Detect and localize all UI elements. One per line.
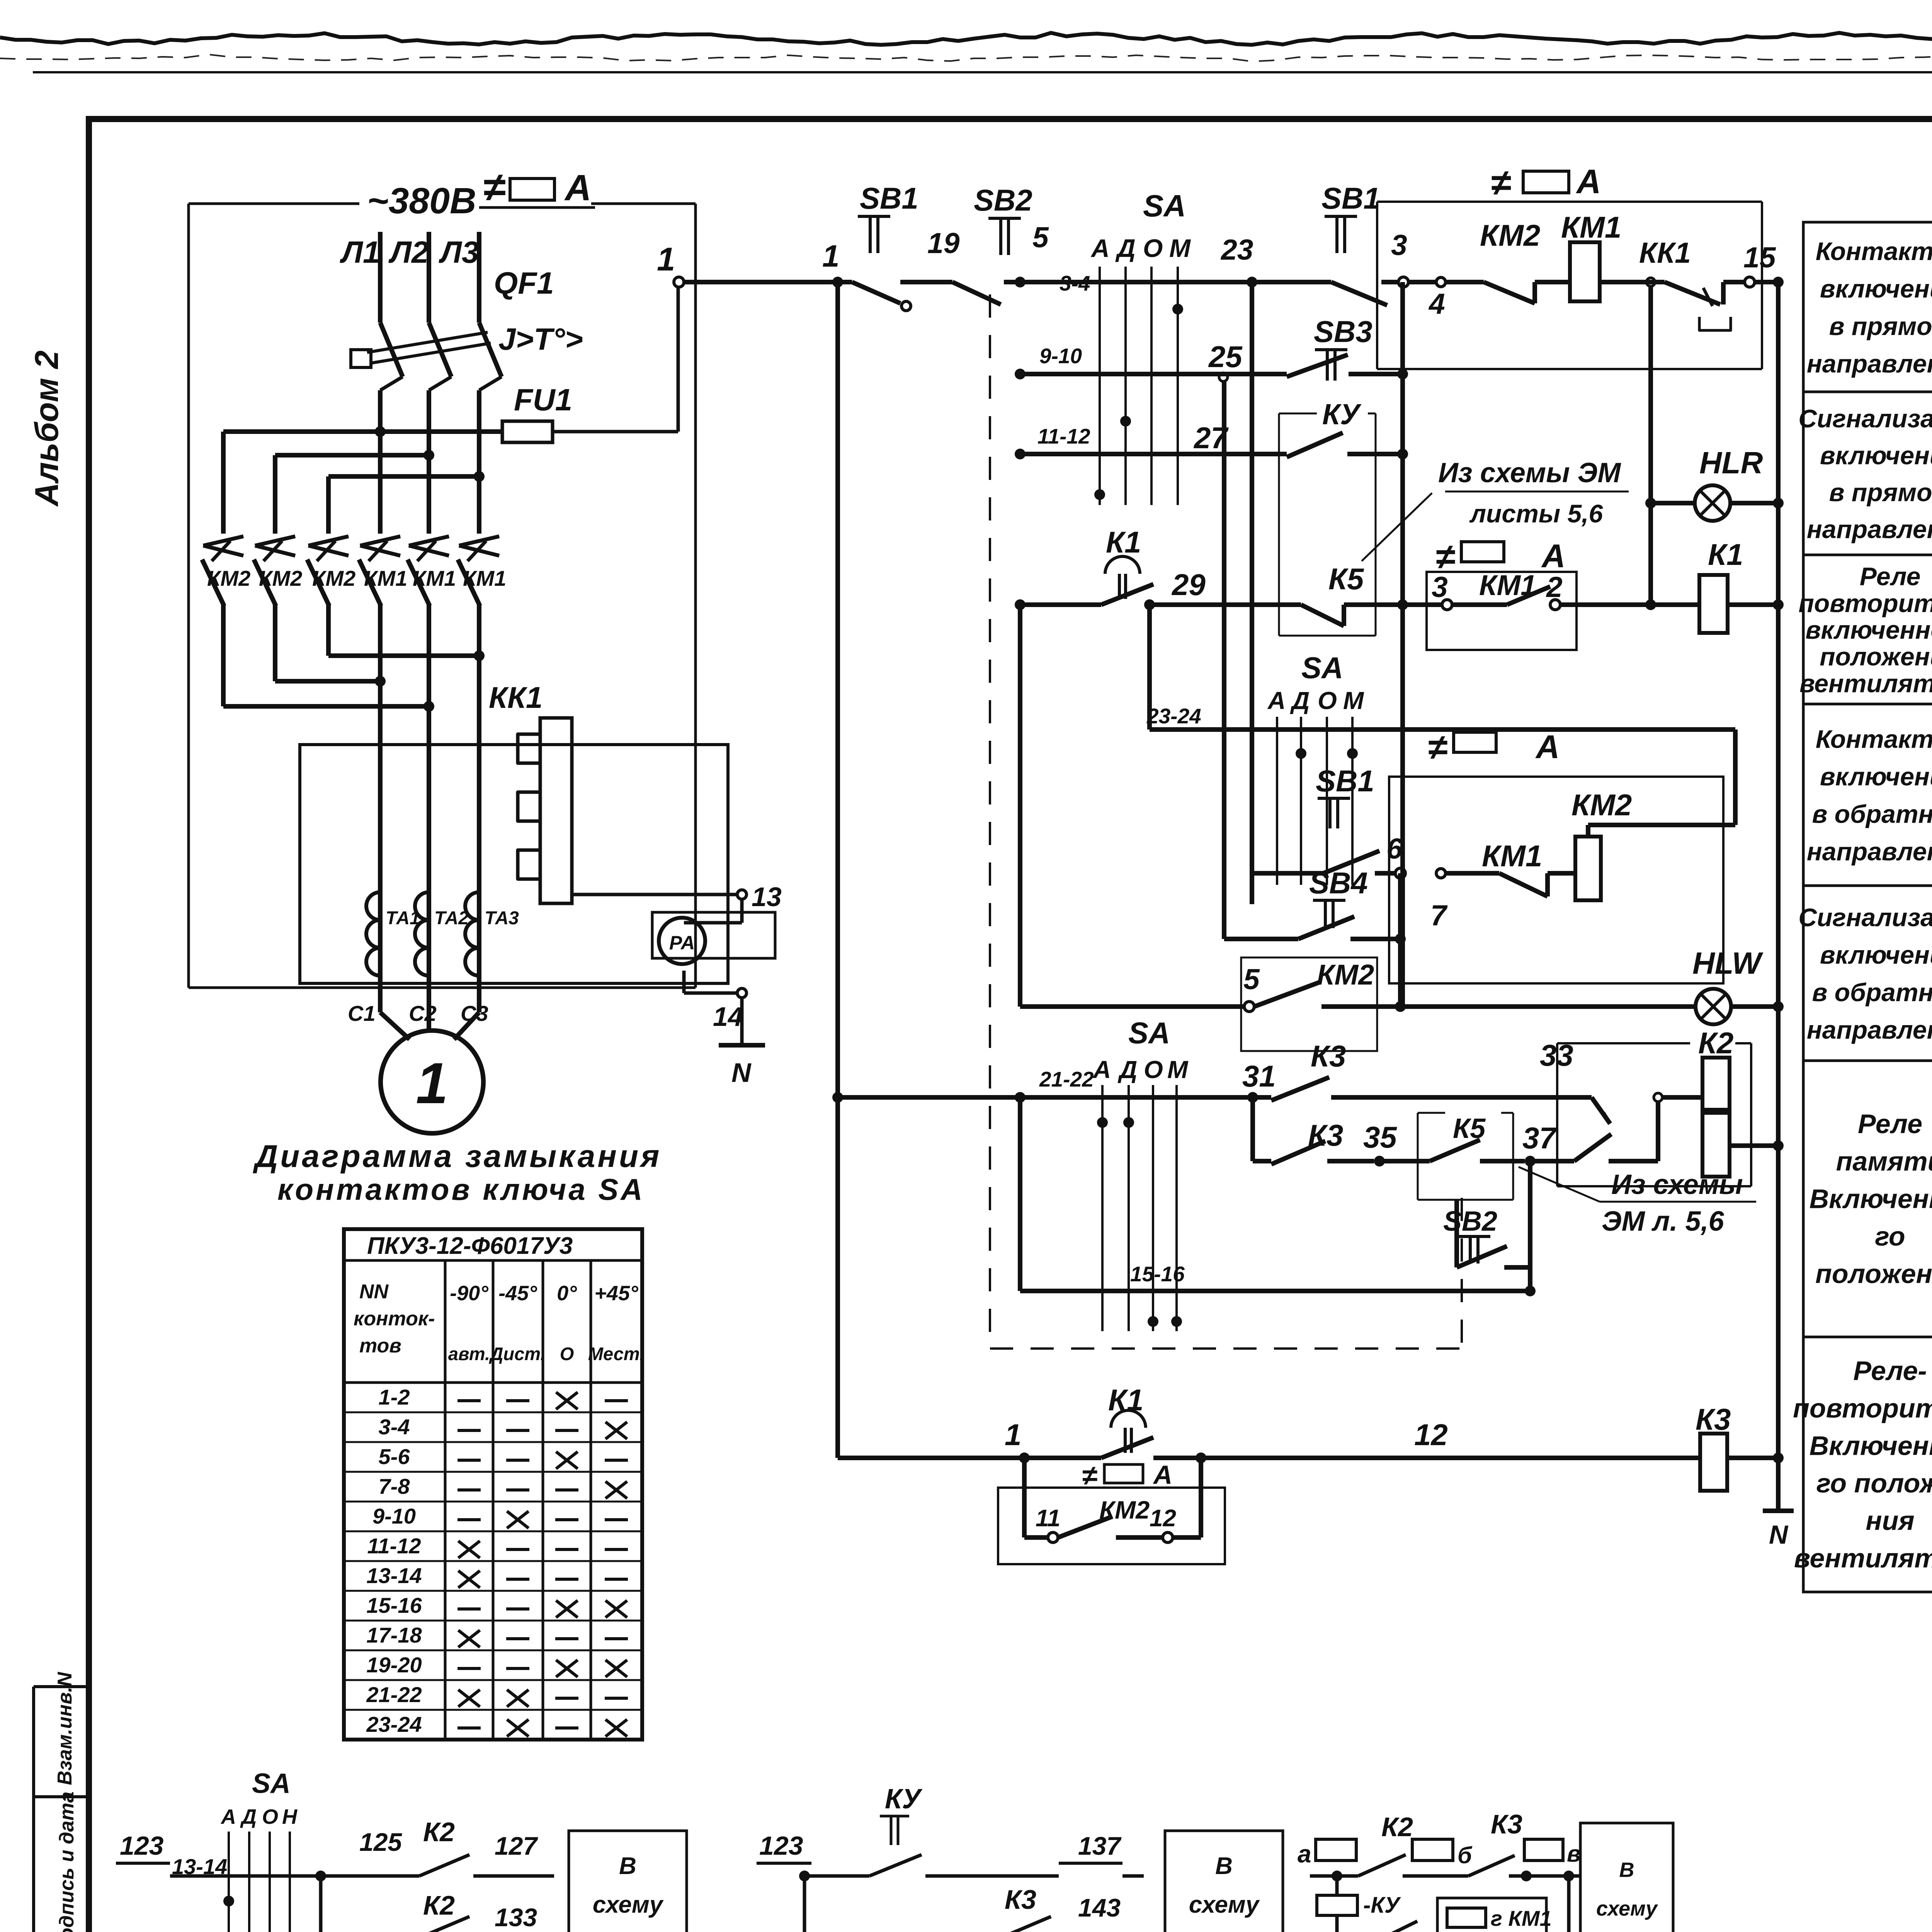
svg-text:К1: К1 [1708, 537, 1743, 571]
current transformer ТА2 [415, 892, 469, 1012]
svg-text:повторитель: повторитель [1793, 1393, 1932, 1423]
svg-text:35: 35 [1363, 1120, 1397, 1154]
svg-text:123: 123 [120, 1831, 164, 1861]
svg-text:5: 5 [1243, 963, 1260, 995]
svg-text:О: О [1144, 1056, 1163, 1083]
tap node on rail 2 for SB4 branch [1219, 373, 1228, 939]
svg-text:13-14: 13-14 [366, 1563, 422, 1588]
svg-text:15-16: 15-16 [1130, 1262, 1185, 1286]
svg-text:включения: включения [1820, 441, 1932, 469]
signal lamp HLR [1695, 446, 1784, 521]
svg-text:г КМ1: г КМ1 [1491, 1906, 1552, 1930]
wire cross link pole1 to phase2 [223, 701, 434, 712]
pushbutton SB1 reverse branch [1251, 764, 1395, 873]
wire pole verticals [223, 605, 479, 892]
svg-text:SB4: SB4 [1309, 866, 1368, 900]
aux contact box 3 KM1 [1403, 569, 1651, 650]
svg-text:-КУ: -КУ [1363, 1893, 1401, 1918]
svg-text:включения: включения [1820, 940, 1932, 969]
svg-text:123: 123 [759, 1831, 803, 1861]
svg-text:1: 1 [657, 241, 675, 278]
node 29 junction [1144, 568, 1301, 610]
svg-text:КУ: КУ [1322, 398, 1362, 430]
node 1 [657, 241, 684, 432]
svg-text:J>Т°>: J>Т°> [498, 322, 583, 356]
svg-text:КМ2: КМ2 [1317, 959, 1374, 991]
svg-text:Контактор: Контактор [1816, 725, 1932, 753]
svg-text:направлении: направлении [1807, 1015, 1932, 1044]
svg-text:9-10: 9-10 [1039, 344, 1082, 368]
SA contact table [344, 1229, 645, 1740]
relay contact K3 on rail 5 [1242, 1038, 1573, 1100]
node 6 [1386, 832, 1405, 878]
svg-text:≠: ≠ [483, 165, 505, 210]
svg-text:31: 31 [1242, 1059, 1276, 1093]
svg-text:А: А [1092, 1056, 1111, 1083]
panel code label 1 [1491, 162, 1601, 203]
SA diagram title [253, 1139, 662, 1206]
svg-text:Взам.инв.N: Взам.инв.N [54, 1672, 76, 1785]
relay contact K1 on rail 7 [1101, 1383, 1700, 1463]
svg-text:19: 19 [927, 227, 960, 259]
power panel enclosure box [189, 204, 696, 988]
svg-text:4: 4 [1428, 287, 1445, 320]
node 7 and contactor aux KM1 NC [1430, 839, 1575, 932]
wire rail 1 through SA to node 23 [1020, 271, 1252, 295]
svg-text:133: 133 [495, 1903, 537, 1932]
svg-text:КМ1: КМ1 [463, 566, 506, 590]
svg-text:М: М [1343, 687, 1364, 714]
svg-text:в обратном: в обратном [1812, 800, 1932, 828]
svg-text:N: N [731, 1058, 752, 1088]
svg-text:+45°: +45° [594, 1282, 638, 1305]
contactor aux contact KM2 NC on rail 1 [1446, 218, 1570, 303]
svg-text:О: О [560, 1344, 574, 1364]
wire main left bus from node 1 [832, 277, 843, 1458]
svg-text:ТА3: ТА3 [485, 908, 519, 929]
svg-text:К2: К2 [423, 1890, 455, 1920]
phase lead Л3 [439, 232, 479, 323]
svg-text:К1: К1 [1106, 525, 1141, 559]
relay coil K3 [1696, 1402, 1784, 1491]
KU auxiliary branch [1317, 1876, 1437, 1932]
svg-text:Сигнализация: Сигнализация [1798, 903, 1932, 932]
svg-text:М: М [1169, 234, 1191, 262]
svg-text:SA: SA [1128, 1016, 1170, 1050]
svg-text:5: 5 [1032, 221, 1049, 253]
svg-text:≠: ≠ [1082, 1460, 1097, 1491]
svg-text:РА: РА [669, 932, 695, 954]
svg-text:Включенно-: Включенно- [1810, 1184, 1932, 1214]
svg-text:Альбом 2: Альбом 2 [29, 350, 65, 507]
svg-text:В: В [1619, 1859, 1634, 1882]
junction node after SB2 [1015, 277, 1026, 287]
svg-text:КМ1: КМ1 [1561, 210, 1621, 244]
wire rail 6 15-16 [1020, 1097, 1536, 1296]
svg-text:авт.: авт. [448, 1344, 490, 1364]
left attribute strip [34, 1672, 89, 1932]
svg-text:3-4: 3-4 [1060, 271, 1090, 295]
svg-text:11: 11 [1036, 1505, 1060, 1532]
svg-text:включения: включения [1820, 762, 1932, 791]
torn paper edge top second [0, 54, 1932, 61]
wire rail 1 start [822, 239, 852, 282]
svg-text:17-18: 17-18 [366, 1623, 422, 1647]
to common circuits box 2 [1165, 1831, 1283, 1932]
svg-text:памяти: памяти [1836, 1146, 1932, 1177]
svg-text:в обратном: в обратном [1812, 978, 1932, 1007]
relay contact K1 on rail 4 [1015, 525, 1153, 610]
svg-text:С1: С1 [348, 1001, 376, 1026]
svg-text:Контактор: Контактор [1816, 237, 1932, 265]
svg-text:КМ2: КМ2 [207, 566, 250, 590]
svg-text:О: О [1318, 687, 1337, 714]
wire right rail N down [1773, 277, 1784, 1511]
control panel box 1 [1377, 202, 1762, 369]
svg-text:вентилятора: вентилятора [1794, 1543, 1932, 1573]
svg-text:в прямом: в прямом [1829, 478, 1932, 507]
contactor coil KM1 [1561, 210, 1665, 301]
junction rail3 right [1397, 449, 1408, 459]
selector switch SA contact column 2 [1267, 651, 1364, 885]
svg-text:КМ1: КМ1 [364, 566, 407, 590]
motor 1 [380, 1012, 483, 1133]
contactor aux KM1 fragment box [1437, 1871, 1574, 1932]
measuring compartment box [300, 745, 728, 983]
torn paper edge top [0, 33, 1932, 45]
svg-text:23-24: 23-24 [1146, 704, 1201, 728]
thermal relay KK1 heater [489, 680, 572, 903]
junction rail4 [1397, 599, 1408, 610]
svg-text:О: О [262, 1805, 278, 1828]
svg-text:положения: положения [1820, 642, 1932, 671]
svg-text:положения: положения [1815, 1259, 1932, 1289]
svg-text:SB2: SB2 [1443, 1206, 1497, 1237]
svg-text:К5: К5 [1328, 562, 1364, 596]
svg-text:127: 127 [495, 1832, 538, 1860]
wire node3 vertical bus [1400, 282, 1405, 1007]
phase lead Л1 [340, 232, 380, 323]
fuse FU1 and phase A bus [223, 383, 678, 442]
svg-text:общих: общих [588, 1930, 668, 1932]
svg-text:конток-: конток- [354, 1308, 435, 1330]
node b [1412, 1839, 1473, 1876]
svg-text:А: А [1267, 687, 1286, 714]
svg-text:Из схемы ЭМ: Из схемы ЭМ [1438, 457, 1621, 488]
svg-text:SA: SA [1143, 189, 1186, 223]
circuit breaker QF1 [351, 266, 583, 390]
ground N power [719, 998, 765, 1088]
relay contact K3 fragment 3 [1468, 1809, 1532, 1881]
contactor main contact КМ2 [307, 536, 355, 606]
svg-text:КМ1: КМ1 [1482, 839, 1542, 873]
svg-text:А: А [1576, 162, 1601, 201]
svg-text:КМ2: КМ2 [312, 566, 355, 590]
svg-text:контактов ключа SA: контактов ключа SA [277, 1172, 645, 1206]
junction to HLR branch [1645, 278, 1696, 605]
signal lamp HLW [1692, 946, 1784, 1024]
svg-text:О: О [1143, 234, 1163, 262]
svg-text:Включенно-: Включенно- [1810, 1431, 1932, 1461]
svg-text:1: 1 [416, 1051, 448, 1116]
svg-text:3-4: 3-4 [379, 1415, 410, 1439]
svg-text:-45°: -45° [498, 1282, 537, 1305]
pushbutton SB4 branch [1224, 866, 1406, 944]
svg-text:NN: NN [359, 1281, 389, 1303]
svg-text:SB1: SB1 [860, 181, 918, 215]
svg-text:21-22: 21-22 [366, 1682, 422, 1707]
svg-text:В: В [1215, 1853, 1233, 1879]
svg-text:25: 25 [1208, 340, 1243, 374]
svg-text:А: А [1153, 1460, 1172, 1490]
svg-text:Подпись и дата: Подпись и дата [56, 1791, 78, 1932]
svg-text:А: А [220, 1805, 236, 1828]
svg-text:FU1: FU1 [514, 383, 572, 417]
wire node6 down [1398, 873, 1403, 1007]
contact 23-24 branch [1146, 605, 1365, 730]
svg-text:27: 27 [1193, 421, 1229, 455]
svg-text:вентилятора: вентилятора [1799, 669, 1932, 697]
wire rail 2 9-10 [1015, 340, 1287, 379]
wire cross link pole2 to phase1 [275, 676, 386, 687]
remote contact KU fragment [869, 1784, 1144, 1876]
bypass demarcation box [1241, 957, 1377, 1051]
svg-text:КМ2: КМ2 [259, 566, 302, 590]
svg-text:SB1: SB1 [1321, 181, 1380, 215]
svg-text:КУ: КУ [885, 1784, 923, 1815]
fragment 2 node 123 [757, 1831, 869, 1881]
svg-text:Реле-: Реле- [1853, 1356, 1927, 1386]
relay coil K1 [1645, 537, 1784, 633]
svg-text:Д: Д [1290, 687, 1310, 714]
svg-text:К3: К3 [1696, 1402, 1731, 1436]
wire from node 1 to control circuit [684, 280, 838, 284]
svg-text:~380В: ~380В [367, 180, 476, 221]
svg-text:7: 7 [1430, 899, 1448, 932]
wire phase verticals below QF1 [380, 390, 479, 534]
svg-text:21-22: 21-22 [1039, 1067, 1094, 1091]
pushbutton SB1 panel contact [1252, 181, 1399, 305]
wire cross link pole3 to phase3 [328, 650, 485, 661]
svg-text:А: А [1541, 538, 1565, 575]
phase lead Л2 [388, 232, 429, 323]
reverse panel box 2 [1389, 777, 1723, 983]
relay contact K2 fragment 3 [1358, 1812, 1413, 1876]
node v [1524, 1839, 1581, 1876]
relay contact K2 fragment 125-127 [321, 1817, 554, 1876]
svg-text:-90°: -90° [450, 1282, 488, 1305]
contactor main contact КМ2 [254, 536, 302, 606]
wire rail 5 21-22 [832, 1067, 1271, 1103]
svg-text:SB2: SB2 [974, 183, 1032, 217]
svg-text:К2: К2 [423, 1817, 455, 1847]
to signalling circuits box [1580, 1823, 1673, 1932]
panel boundary dashed line [990, 294, 1462, 1349]
wire bus phase B [275, 450, 434, 461]
current transformer ТА1 [366, 892, 420, 1012]
svg-text:включенного: включенного [1805, 616, 1932, 644]
svg-text:11-12: 11-12 [367, 1534, 421, 1558]
sheet border top thin line [33, 71, 1932, 73]
svg-text:а: а [1298, 1840, 1311, 1868]
KU K5 demarcation box [1279, 398, 1376, 636]
svg-text:11-12: 11-12 [1037, 424, 1090, 448]
contactor main contact КМ2 [202, 536, 250, 606]
svg-text:листы 5,6: листы 5,6 [1469, 499, 1604, 528]
svg-text:Из схемы: Из схемы [1611, 1169, 1743, 1200]
junction rail2 right [1397, 369, 1408, 379]
svg-text:К5: К5 [1453, 1113, 1486, 1144]
pushbutton SB2 contact [949, 183, 1049, 304]
svg-text:≠: ≠ [1491, 162, 1511, 203]
svg-text:12: 12 [1414, 1418, 1448, 1452]
svg-text:направлении: направлении [1807, 349, 1932, 378]
relay contact K5 box row2 [1379, 1113, 1611, 1200]
node 15 [1743, 241, 1778, 287]
svg-text:тов: тов [359, 1335, 401, 1357]
node 4 [1408, 277, 1446, 320]
svg-text:А: А [564, 167, 592, 208]
svg-text:К2: К2 [1698, 1026, 1733, 1060]
relay contact K2 fragment 133 [321, 1876, 554, 1932]
svg-text:Д: Д [1117, 1056, 1137, 1083]
pushbutton SB3 contact [1287, 315, 1403, 381]
svg-text:КК1: КК1 [1639, 236, 1691, 269]
svg-text:SB1: SB1 [1316, 764, 1374, 798]
svg-text:направлении: направлении [1807, 515, 1932, 543]
svg-text:К3: К3 [1311, 1039, 1346, 1073]
svg-text:схему: схему [1596, 1897, 1658, 1920]
svg-text:К3: К3 [1491, 1809, 1522, 1839]
contactor main contact КМ1 [408, 536, 456, 606]
svg-text:19-20: 19-20 [366, 1653, 422, 1677]
svg-text:Д: Д [240, 1805, 257, 1828]
svg-text:Диаграмма замыкания: Диаграмма замыкания [253, 1139, 662, 1174]
fragment 1 node 123 [116, 1831, 234, 1906]
svg-text:SB3: SB3 [1314, 315, 1372, 349]
svg-text:SA: SA [252, 1768, 291, 1799]
pushbutton SB1 post [852, 181, 960, 311]
svg-text:б: б [1458, 1842, 1473, 1868]
svg-text:13: 13 [752, 882, 782, 912]
bypass contact KM2 with node 5 [1020, 605, 1696, 1012]
svg-text:схему: схему [1189, 1891, 1260, 1918]
svg-text:схему: схему [593, 1891, 664, 1918]
svg-text:Реле: Реле [1860, 562, 1921, 591]
svg-text:37: 37 [1522, 1121, 1557, 1155]
svg-text:К3: К3 [1005, 1884, 1036, 1915]
svg-text:Реле: Реле [1858, 1109, 1922, 1139]
svg-text:≠: ≠ [1435, 537, 1455, 577]
svg-text:Мест.: Мест. [588, 1344, 645, 1364]
thermal relay contact KK1 [1639, 236, 1745, 330]
panel code label 3 [1428, 728, 1560, 767]
node 23 [1220, 233, 1257, 287]
svg-text:QF1: QF1 [494, 266, 554, 300]
svg-text:1: 1 [822, 239, 840, 273]
svg-text:Дист.: Дист. [488, 1344, 545, 1364]
svg-text:SA: SA [1301, 651, 1343, 685]
function description column [1793, 222, 1932, 1592]
relay contact K5 on rail 4 [1301, 562, 1403, 626]
svg-text:23: 23 [1220, 233, 1253, 266]
svg-text:9-10: 9-10 [372, 1504, 416, 1528]
svg-text:общих: общих [1184, 1930, 1265, 1932]
contactor main contact КМ1 [359, 536, 407, 606]
selector switch SA fragment column [220, 1768, 326, 1932]
svg-text:ТА2: ТА2 [434, 908, 469, 929]
svg-text:К2: К2 [1381, 1812, 1413, 1842]
svg-text:125: 125 [359, 1828, 402, 1856]
svg-text:1-2: 1-2 [379, 1385, 410, 1409]
svg-text:го положе-: го положе- [1816, 1468, 1932, 1498]
to common circuits box 1 [569, 1831, 687, 1932]
ground N control [1763, 1511, 1794, 1549]
svg-text:ПКУ3-12-Ф6017У3: ПКУ3-12-Ф6017У3 [367, 1233, 573, 1259]
svg-text:направлении: направлении [1807, 837, 1932, 866]
svg-text:1: 1 [1005, 1418, 1021, 1452]
node 13 [572, 882, 782, 923]
bypass KM2 11-12 branch [998, 1458, 1225, 1564]
svg-text:ЭМ л. 5,6: ЭМ л. 5,6 [1602, 1206, 1725, 1237]
svg-text:С2: С2 [409, 1001, 437, 1026]
terminal labels C1 C2 C3 [348, 1001, 488, 1026]
wire rail 3 11-12 [1015, 421, 1287, 459]
memory relay K2 box [1557, 1026, 1784, 1186]
ammeter PA [652, 912, 775, 964]
svg-text:повторитель: повторитель [1799, 589, 1932, 617]
svg-text:2: 2 [1546, 571, 1563, 603]
pushbutton SB2 latch release [1443, 1161, 1530, 1291]
relay contact K3 fragment 143 [804, 1876, 1144, 1932]
fragment 3 node a [1298, 1839, 1358, 1881]
svg-text:7-8: 7-8 [379, 1474, 410, 1498]
svg-text:N: N [1769, 1520, 1789, 1549]
node 3 [1391, 229, 1408, 287]
svg-text:А: А [1535, 729, 1560, 765]
remote contact KU on rail 3 [1287, 433, 1403, 457]
selector switch SA contact column 3 [1092, 1016, 1189, 1331]
svg-text:Л1: Л1 [340, 235, 380, 269]
svg-text:С3: С3 [461, 1001, 488, 1026]
svg-text:КМ2: КМ2 [1480, 218, 1540, 252]
svg-text:15-16: 15-16 [366, 1593, 422, 1617]
svg-text:ния: ния [1866, 1506, 1914, 1536]
selector switch SA contact column 1 [1090, 189, 1191, 505]
svg-text:го: го [1875, 1221, 1905, 1252]
svg-text:≠: ≠ [1428, 728, 1447, 767]
panel code label top [479, 165, 595, 210]
svg-text:Л2: Л2 [388, 235, 429, 269]
wire bus phase C [328, 471, 485, 482]
wire K3 row 2 [1247, 1092, 1397, 1167]
svg-text:КМ1: КМ1 [413, 566, 456, 590]
wire branch from node 23 down [1250, 282, 1254, 904]
svg-text:23-24: 23-24 [366, 1712, 422, 1736]
svg-text:в прямом: в прямом [1829, 312, 1932, 340]
svg-text:12: 12 [1150, 1505, 1176, 1532]
svg-text:29: 29 [1171, 568, 1206, 602]
svg-text:Сигнализация: Сигнализация [1798, 404, 1932, 433]
svg-text:HLR: HLR [1699, 446, 1763, 480]
svg-text:5-6: 5-6 [379, 1444, 410, 1469]
panel code label 2 [1435, 537, 1565, 577]
svg-text:М: М [1167, 1056, 1189, 1083]
svg-text:137: 137 [1078, 1832, 1122, 1860]
svg-text:143: 143 [1078, 1893, 1121, 1922]
svg-text:0°: 0° [557, 1282, 577, 1305]
svg-text:HLW: HLW [1692, 946, 1764, 980]
